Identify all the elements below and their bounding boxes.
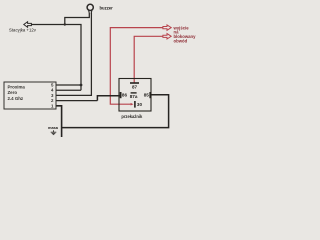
svg-text:2.4 Ghz: 2.4 Ghz	[8, 96, 24, 101]
svg-text:87: 87	[132, 84, 138, 89]
svg-text:87a: 87a	[130, 94, 138, 99]
svg-text:Proxima: Proxima	[8, 85, 26, 90]
svg-text:przekaźnik: przekaźnik	[121, 114, 143, 119]
svg-text:30: 30	[137, 102, 143, 107]
svg-text:86: 86	[122, 93, 128, 98]
svg-text:masa: masa	[48, 125, 59, 130]
svg-text:Zero: Zero	[8, 90, 18, 95]
svg-text:obwód: obwód	[174, 39, 188, 44]
svg-text:Stacyjka +12v: Stacyjka +12v	[9, 27, 37, 32]
svg-text:85: 85	[144, 93, 150, 98]
svg-text:buzzer: buzzer	[100, 5, 114, 10]
